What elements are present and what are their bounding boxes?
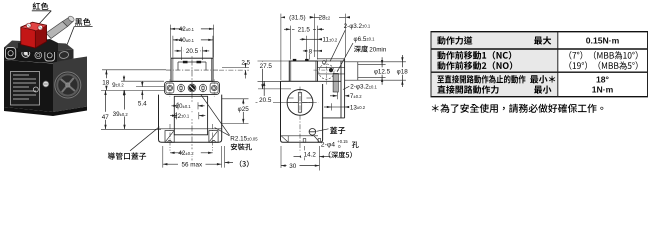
svg-text:1N·m: 1N·m [592, 85, 614, 95]
svg-text:5.4: 5.4 [138, 101, 147, 108]
svg-text:47: 47 [102, 114, 110, 121]
svg-text:φ25: φ25 [238, 106, 250, 113]
svg-text:20min: 20min [369, 47, 387, 54]
svg-text:18: 18 [102, 79, 110, 86]
svg-text:2.5: 2.5 [241, 59, 250, 66]
svg-text:30: 30 [289, 163, 297, 170]
svg-text:φ18: φ18 [397, 69, 409, 76]
svg-text:φ12.5: φ12.5 [374, 69, 391, 76]
svg-text:56 max: 56 max [181, 161, 203, 168]
svg-text:20.5: 20.5 [186, 48, 199, 55]
svg-text:(31.5): (31.5) [289, 15, 305, 22]
svg-text:27.5: 27.5 [260, 63, 273, 70]
svg-text:2-φ4: 2-φ4 [321, 142, 335, 149]
svg-text:0.15N·m: 0.15N·m [586, 36, 620, 46]
svg-text:18°: 18° [596, 74, 610, 84]
svg-text:14.2: 14.2 [304, 151, 317, 158]
svg-text:8: 8 [309, 48, 313, 55]
svg-text:20.5: 20.5 [259, 97, 272, 104]
svg-text:21.5: 21.5 [298, 27, 311, 34]
